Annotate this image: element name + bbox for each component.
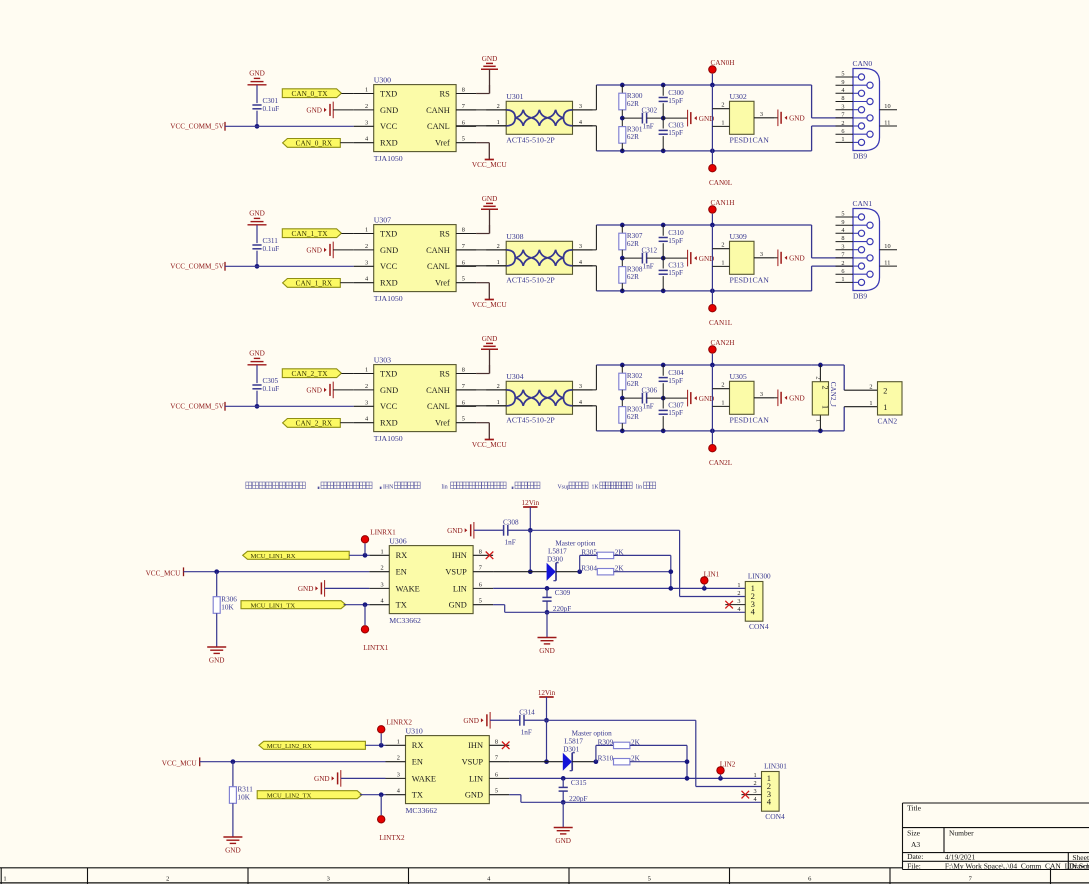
- svg-text:CAN0H: CAN0H: [711, 59, 735, 67]
- svg-text:2: 2: [815, 376, 822, 379]
- svg-text:WAKE: WAKE: [412, 774, 436, 783]
- svg-text:3: 3: [579, 243, 582, 250]
- svg-text:U305: U305: [730, 372, 747, 381]
- svg-text:ACT45-510-2P: ACT45-510-2P: [506, 136, 555, 145]
- svg-text:IHN: IHN: [452, 551, 467, 560]
- svg-text:4: 4: [751, 607, 756, 617]
- svg-text:GND: GND: [298, 585, 314, 593]
- svg-text:LIN1: LIN1: [704, 570, 720, 578]
- svg-text:5: 5: [462, 276, 465, 283]
- svg-text:15pF: 15pF: [668, 97, 683, 105]
- svg-text:2: 2: [497, 103, 500, 110]
- svg-text:2: 2: [497, 243, 500, 250]
- svg-text:EN: EN: [412, 758, 423, 767]
- svg-text:GND: GND: [447, 527, 463, 535]
- svg-text:62R: 62R: [627, 133, 639, 141]
- svg-text:5: 5: [648, 876, 651, 883]
- svg-text:PESD1CAN: PESD1CAN: [730, 416, 770, 425]
- svg-text:11: 11: [884, 120, 890, 127]
- svg-text:12Vin: 12Vin: [538, 689, 556, 697]
- svg-text:4: 4: [767, 797, 772, 807]
- svg-text:LIN2: LIN2: [720, 760, 736, 768]
- svg-text:2: 2: [721, 102, 724, 109]
- svg-text:DB9: DB9: [853, 292, 867, 301]
- svg-text:R310: R310: [598, 755, 614, 763]
- svg-text:Vref: Vref: [435, 419, 450, 428]
- svg-text:TXD: TXD: [380, 369, 397, 378]
- svg-text:CAN2H: CAN2H: [711, 339, 735, 347]
- svg-text:VCC_MCU: VCC_MCU: [472, 301, 508, 309]
- svg-text:3: 3: [365, 119, 368, 126]
- svg-text:PESD1CAN: PESD1CAN: [730, 136, 770, 145]
- svg-text:CANH: CANH: [426, 386, 450, 395]
- svg-text:1: 1: [721, 119, 724, 126]
- svg-text:2: 2: [365, 103, 368, 110]
- svg-text:CAN_1_RX: CAN_1_RX: [296, 279, 333, 288]
- svg-text:5: 5: [841, 211, 844, 218]
- svg-text:1: 1: [3, 876, 6, 883]
- svg-text:Size: Size: [907, 828, 921, 837]
- svg-text:CAN1L: CAN1L: [709, 319, 732, 327]
- svg-text:1: 1: [497, 399, 500, 406]
- svg-text:RS: RS: [440, 229, 451, 238]
- svg-text:RXD: RXD: [380, 279, 398, 288]
- svg-text:3: 3: [737, 598, 740, 605]
- svg-text:VCC_MCU: VCC_MCU: [472, 441, 508, 449]
- svg-text:GND: GND: [482, 195, 498, 203]
- svg-text:PESD1CAN: PESD1CAN: [730, 276, 770, 285]
- svg-text:CANL: CANL: [427, 402, 450, 411]
- svg-text:15pF: 15pF: [668, 377, 683, 385]
- svg-text:DB9: DB9: [853, 152, 867, 161]
- svg-text:GND: GND: [380, 246, 398, 255]
- svg-text:10K: 10K: [238, 793, 251, 801]
- svg-text:1: 1: [365, 87, 368, 94]
- svg-text:GND: GND: [555, 837, 571, 845]
- svg-text:1: 1: [754, 772, 757, 779]
- svg-text:GND: GND: [789, 115, 805, 123]
- svg-text:8: 8: [841, 235, 844, 242]
- svg-text:2: 2: [397, 755, 400, 762]
- svg-text:LINRX1: LINRX1: [370, 529, 396, 537]
- svg-text:WAKE: WAKE: [396, 584, 420, 593]
- svg-text:8: 8: [479, 548, 482, 555]
- svg-text:0.1uF: 0.1uF: [263, 385, 280, 393]
- svg-text:3: 3: [760, 391, 763, 398]
- svg-text:1: 1: [497, 259, 500, 266]
- svg-text:7: 7: [462, 383, 465, 390]
- svg-text:3: 3: [327, 876, 330, 883]
- svg-text:GND: GND: [306, 247, 322, 255]
- svg-text:7: 7: [462, 243, 465, 250]
- svg-text:VCC_MCU: VCC_MCU: [162, 759, 198, 767]
- svg-text:D300: D300: [547, 555, 563, 563]
- svg-text:U303: U303: [374, 355, 391, 364]
- svg-text:Number: Number: [949, 829, 974, 838]
- svg-text:CAN_0_RX: CAN_0_RX: [296, 139, 333, 148]
- svg-text:U302: U302: [730, 92, 747, 101]
- svg-text:2: 2: [721, 242, 724, 249]
- svg-text:VCC_MCU: VCC_MCU: [472, 161, 508, 169]
- svg-text:TX: TX: [396, 601, 407, 610]
- svg-text:LIN301: LIN301: [764, 762, 787, 770]
- svg-text:RXD: RXD: [380, 139, 398, 148]
- svg-text:15pF: 15pF: [668, 409, 683, 417]
- svg-text:6: 6: [479, 581, 482, 588]
- svg-text:62R: 62R: [627, 380, 639, 388]
- svg-text:MCU_LIN2_RX: MCU_LIN2_RX: [267, 743, 312, 750]
- svg-text:RXD: RXD: [380, 419, 398, 428]
- svg-text:3: 3: [397, 771, 400, 778]
- svg-text:VCC_COMM_5V: VCC_COMM_5V: [170, 402, 224, 410]
- svg-text:12Vin: 12Vin: [522, 499, 540, 507]
- svg-text:LINTX1: LINTX1: [363, 644, 389, 652]
- svg-text:RX: RX: [412, 741, 424, 750]
- svg-text:1: 1: [381, 548, 384, 555]
- svg-text:CAN_1_TX: CAN_1_TX: [291, 229, 328, 238]
- svg-text:C314: C314: [519, 708, 535, 716]
- svg-text:1: 1: [365, 367, 368, 374]
- svg-text:VSUP: VSUP: [445, 568, 467, 577]
- svg-text:U301: U301: [506, 92, 523, 101]
- svg-text:1K: 1K: [592, 485, 600, 491]
- svg-text:3: 3: [760, 251, 763, 258]
- svg-text:GND: GND: [789, 255, 805, 263]
- svg-text:U309: U309: [730, 232, 747, 241]
- svg-text:0.1uF: 0.1uF: [263, 105, 280, 113]
- svg-text:C308: C308: [503, 518, 519, 526]
- svg-text:CAN0L: CAN0L: [709, 179, 732, 187]
- svg-text:CANH: CANH: [426, 246, 450, 255]
- svg-text:2: 2: [497, 383, 500, 390]
- svg-text:0.1uF: 0.1uF: [263, 245, 280, 253]
- svg-text:3: 3: [841, 103, 844, 110]
- svg-text:C315: C315: [571, 779, 587, 787]
- svg-text:5: 5: [495, 788, 498, 795]
- svg-text:IHN: IHN: [468, 741, 483, 750]
- svg-text:3: 3: [365, 399, 368, 406]
- svg-text:Vref: Vref: [435, 279, 450, 288]
- svg-text:C301: C301: [263, 97, 279, 105]
- svg-text:8: 8: [462, 367, 465, 374]
- svg-text:2: 2: [821, 386, 830, 390]
- svg-text:GND: GND: [249, 70, 265, 78]
- svg-text:GND: GND: [380, 106, 398, 115]
- svg-text:C305: C305: [263, 377, 279, 385]
- svg-text:A3: A3: [911, 840, 920, 849]
- svg-text:1: 1: [883, 403, 887, 412]
- svg-text:7: 7: [841, 112, 844, 119]
- svg-text:ACT45-510-2P: ACT45-510-2P: [506, 416, 555, 425]
- svg-text:VCC: VCC: [380, 122, 398, 131]
- svg-text:GND: GND: [314, 775, 330, 783]
- svg-text:CAN0: CAN0: [853, 59, 873, 68]
- svg-text:8: 8: [841, 95, 844, 102]
- svg-text:CANL: CANL: [427, 262, 450, 271]
- svg-text:1: 1: [737, 582, 740, 589]
- svg-text:GND: GND: [482, 335, 498, 343]
- svg-text:7: 7: [462, 103, 465, 110]
- svg-text:GND: GND: [539, 647, 555, 655]
- svg-text:GND: GND: [209, 656, 225, 664]
- svg-text:1: 1: [721, 259, 724, 266]
- svg-text:1nF: 1nF: [643, 263, 654, 271]
- svg-text:TJA1050: TJA1050: [374, 154, 403, 163]
- svg-text:IHN: IHN: [383, 485, 394, 491]
- svg-text:C306: C306: [642, 387, 658, 395]
- svg-text:5: 5: [462, 136, 465, 143]
- svg-text:C302: C302: [642, 107, 658, 115]
- svg-text:7: 7: [841, 252, 844, 259]
- svg-text:GND: GND: [482, 55, 498, 63]
- svg-text:CAN_2_RX: CAN_2_RX: [296, 419, 333, 428]
- svg-text:2: 2: [721, 382, 724, 389]
- svg-text:5: 5: [462, 416, 465, 423]
- svg-text:VSUP: VSUP: [462, 758, 484, 767]
- svg-text:TJA1050: TJA1050: [374, 294, 403, 303]
- svg-text:R304: R304: [581, 565, 597, 573]
- svg-text:CAN2: CAN2: [878, 416, 898, 425]
- svg-text:VCC_MCU: VCC_MCU: [146, 569, 182, 577]
- svg-text:CANL: CANL: [427, 122, 450, 131]
- svg-text:2: 2: [841, 120, 844, 127]
- svg-text:1: 1: [365, 227, 368, 234]
- svg-text:GND: GND: [465, 791, 483, 800]
- svg-text:3: 3: [841, 243, 844, 250]
- svg-text:CAN2L: CAN2L: [709, 459, 732, 467]
- svg-text:U304: U304: [506, 372, 523, 381]
- svg-text:GND: GND: [463, 717, 479, 725]
- svg-text:GND: GND: [449, 601, 467, 610]
- svg-text:CAN_2_TX: CAN_2_TX: [291, 369, 328, 378]
- svg-text:8: 8: [495, 738, 498, 745]
- svg-text:1: 1: [497, 119, 500, 126]
- svg-text:Vsup: Vsup: [558, 485, 570, 491]
- svg-text:2: 2: [883, 387, 887, 396]
- svg-text:RS: RS: [440, 369, 451, 378]
- svg-text:VCC: VCC: [380, 262, 398, 271]
- svg-text:Date:: Date:: [907, 852, 923, 861]
- svg-text:GND: GND: [225, 846, 241, 854]
- svg-text:4/19/2021: 4/19/2021: [945, 853, 976, 862]
- svg-text:lin: lin: [442, 485, 448, 491]
- svg-text:2: 2: [737, 590, 740, 597]
- svg-text:GND: GND: [306, 387, 322, 395]
- svg-text:Sheet: Sheet: [1072, 853, 1089, 862]
- svg-text:3: 3: [365, 259, 368, 266]
- svg-text:10K: 10K: [221, 603, 234, 611]
- svg-text:CON4: CON4: [749, 622, 769, 631]
- svg-text:6: 6: [495, 771, 498, 778]
- svg-text:1nF: 1nF: [643, 403, 654, 411]
- svg-text:VCC_COMM_5V: VCC_COMM_5V: [170, 122, 224, 130]
- svg-text:RX: RX: [396, 551, 408, 560]
- svg-text:MC33662: MC33662: [389, 616, 421, 625]
- svg-text:10: 10: [884, 103, 890, 110]
- svg-text:CON4: CON4: [765, 812, 785, 821]
- svg-text:TXD: TXD: [380, 89, 397, 98]
- svg-text:2: 2: [754, 780, 757, 787]
- svg-text:MCU_LIN1_RX: MCU_LIN1_RX: [251, 553, 296, 560]
- svg-text:8: 8: [462, 227, 465, 234]
- svg-text:1: 1: [721, 399, 724, 406]
- svg-text:9: 9: [841, 79, 844, 86]
- svg-text:LIN: LIN: [469, 774, 483, 783]
- svg-text:TJA1050: TJA1050: [374, 434, 403, 443]
- svg-text:1: 1: [841, 136, 844, 143]
- svg-text:GND: GND: [249, 350, 265, 358]
- svg-text:6: 6: [841, 128, 844, 135]
- svg-text:5: 5: [841, 71, 844, 78]
- svg-text:R309: R309: [598, 738, 614, 746]
- svg-text:MC33662: MC33662: [406, 806, 438, 815]
- svg-text:CANH: CANH: [426, 106, 450, 115]
- svg-text:F:\My Work Space\..\04_Comm_CA: F:\My Work Space\..\04_Comm_CAN_LIN.SchD…: [945, 862, 1089, 871]
- svg-text:15pF: 15pF: [668, 237, 683, 245]
- svg-text:2: 2: [365, 243, 368, 250]
- svg-text:3: 3: [760, 111, 763, 118]
- svg-text:6: 6: [462, 399, 465, 406]
- svg-text:1: 1: [815, 419, 822, 422]
- svg-text:1: 1: [869, 400, 872, 407]
- svg-text:Vref: Vref: [435, 139, 450, 148]
- svg-text:CAN_0_TX: CAN_0_TX: [291, 89, 328, 98]
- svg-text:L5817: L5817: [564, 737, 583, 745]
- svg-text:15pF: 15pF: [668, 269, 683, 277]
- svg-text:2: 2: [381, 565, 384, 572]
- svg-text:VCC: VCC: [380, 402, 398, 411]
- svg-text:lin: lin: [636, 485, 642, 491]
- svg-text:GND: GND: [380, 386, 398, 395]
- svg-text:CAN1H: CAN1H: [711, 199, 735, 207]
- svg-text:ACT45-510-2P: ACT45-510-2P: [506, 276, 555, 285]
- svg-text:3: 3: [754, 788, 757, 795]
- svg-text:C312: C312: [642, 247, 658, 255]
- svg-text:U300: U300: [374, 75, 391, 84]
- svg-text:File:: File:: [907, 861, 921, 870]
- svg-text:TXD: TXD: [380, 229, 397, 238]
- svg-text:15pF: 15pF: [668, 129, 683, 137]
- svg-text:1nF: 1nF: [643, 123, 654, 131]
- svg-text:9: 9: [841, 219, 844, 226]
- svg-text:10: 10: [884, 243, 890, 250]
- svg-text:2: 2: [841, 260, 844, 267]
- svg-text:7: 7: [495, 755, 498, 762]
- svg-text:LIN300: LIN300: [748, 572, 771, 580]
- svg-text:3: 3: [579, 383, 582, 390]
- svg-text:8: 8: [462, 87, 465, 94]
- svg-text:GND: GND: [789, 395, 805, 403]
- svg-text:1: 1: [397, 738, 400, 745]
- svg-text:5: 5: [479, 598, 482, 605]
- svg-text:6: 6: [462, 259, 465, 266]
- svg-text:D301: D301: [563, 745, 579, 753]
- svg-text:RS: RS: [440, 89, 451, 98]
- svg-text:62R: 62R: [627, 240, 639, 248]
- svg-text:LINRX2: LINRX2: [386, 719, 412, 727]
- svg-text:U307: U307: [374, 215, 391, 224]
- svg-text:3: 3: [579, 103, 582, 110]
- svg-text:GND: GND: [249, 210, 265, 218]
- svg-text:62R: 62R: [627, 273, 639, 281]
- svg-text:GND: GND: [306, 107, 322, 115]
- svg-text:6: 6: [462, 119, 465, 126]
- svg-text:CAN2_J: CAN2_J: [829, 382, 837, 407]
- svg-text:MCU_LIN1_TX: MCU_LIN1_TX: [251, 602, 296, 609]
- svg-text:LINTX2: LINTX2: [379, 834, 405, 842]
- svg-text:1: 1: [841, 276, 844, 283]
- svg-text:3: 3: [381, 581, 384, 588]
- svg-text:C309: C309: [555, 589, 571, 597]
- svg-text:U306: U306: [389, 536, 406, 545]
- svg-text:EN: EN: [396, 568, 407, 577]
- svg-text:62R: 62R: [627, 413, 639, 421]
- svg-text:U310: U310: [406, 726, 423, 735]
- svg-text:62R: 62R: [627, 100, 639, 108]
- svg-text:1nF: 1nF: [505, 539, 516, 547]
- svg-text:R305: R305: [581, 548, 597, 556]
- svg-text:Title: Title: [907, 804, 922, 813]
- svg-text:2: 2: [166, 876, 169, 883]
- svg-text:6: 6: [841, 268, 844, 275]
- svg-text:C311: C311: [263, 237, 279, 245]
- svg-text:TX: TX: [412, 791, 423, 800]
- svg-text:1: 1: [821, 405, 830, 409]
- svg-text:MCU_LIN2_TX: MCU_LIN2_TX: [267, 792, 312, 799]
- svg-text:2: 2: [869, 384, 872, 391]
- svg-text:11: 11: [884, 260, 890, 267]
- svg-text:1nF: 1nF: [521, 729, 532, 737]
- svg-text:L5817: L5817: [548, 547, 567, 555]
- svg-text:VCC_COMM_5V: VCC_COMM_5V: [170, 262, 224, 270]
- svg-text:2: 2: [365, 383, 368, 390]
- svg-text:Drawn: Drawn: [1069, 862, 1089, 871]
- svg-text:U308: U308: [506, 232, 523, 241]
- svg-text:LIN: LIN: [453, 584, 467, 593]
- svg-text:CAN1: CAN1: [853, 199, 873, 208]
- svg-text:7: 7: [479, 565, 482, 572]
